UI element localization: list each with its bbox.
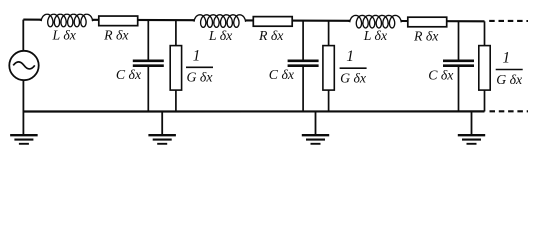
value label G1 = 1/(G deltax) fraction (186, 47, 213, 84)
wire C1 bottom stem (147, 67, 149, 112)
svg-text:1: 1 (346, 48, 354, 65)
ground GND1 bars (10, 135, 38, 144)
svg-text:1: 1 (193, 47, 201, 64)
capacitor C2 bottom plate (288, 64, 319, 67)
svg-text:L δx: L δx (363, 28, 388, 43)
ground GND4 bars (458, 135, 485, 144)
capacitor C2 top plate (288, 59, 319, 62)
inductor L2 (192, 15, 247, 28)
ground GND1 stem (source) (22, 112, 24, 135)
wire conductance G2 top stem (328, 21, 330, 46)
resistor R1 (99, 16, 138, 26)
ground GND4 stem (471, 112, 473, 135)
wire conductance G3 top stem (484, 21, 486, 45)
svg-text:C δx: C δx (428, 68, 454, 83)
wire top segment L1-R1-node B to L2 (92, 19, 195, 21)
wire C3 bottom stem (458, 67, 460, 112)
wire C2 top stem (302, 21, 304, 60)
wire dashed continuation top (line cont.) (489, 20, 528, 22)
capacitor C3 top plate (443, 59, 474, 62)
svg-text:R δx: R δx (258, 28, 284, 43)
wire top segment R2-node C to L3 (246, 19, 351, 21)
svg-text:1: 1 (502, 50, 510, 67)
svg-text:L δx: L δx (51, 27, 76, 42)
conductance element G3 box (479, 46, 490, 91)
wire conductance G1 top stem (175, 20, 177, 46)
wire top segment node A to L1 (23, 19, 42, 21)
inductor L1 (39, 14, 94, 27)
svg-text:C δx: C δx (269, 67, 295, 82)
svg-text:R δx: R δx (413, 28, 439, 43)
wire conductance G2 bottom stem (328, 90, 330, 111)
value label G2 = 1/(G deltax) fraction (340, 48, 367, 85)
ground GND2 bars (148, 135, 176, 144)
wire top segment R3 to node D (401, 20, 485, 22)
ground GND2 stem (161, 112, 163, 135)
ground GND3 bars (302, 135, 329, 144)
svg-text:G δx: G δx (187, 70, 214, 85)
resistor R3 (408, 17, 447, 27)
value label G3 = 1/(G deltax) fraction (496, 50, 523, 87)
wire bottom return (ground bus) (23, 110, 484, 112)
voltage source Vs riser wire (bottom) joining ground bus (22, 80, 24, 111)
conductance element G2 box (323, 46, 334, 91)
svg-text:G δx: G δx (340, 71, 367, 86)
ground GND3 stem (315, 112, 317, 135)
resistor R2 (253, 17, 292, 27)
svg-text:R δx: R δx (103, 28, 129, 43)
inductor L3 (348, 15, 403, 28)
wire C1 top stem (147, 20, 149, 59)
wire C2 bottom stem (302, 67, 304, 112)
capacitor C1 top plate (133, 59, 164, 62)
wire C3 top stem (458, 21, 460, 59)
wire conductance G3 bottom stem (484, 90, 486, 111)
svg-text:C δx: C δx (116, 67, 142, 82)
wire conductance G1 bottom stem (175, 90, 177, 111)
AC voltage source Vs (9, 51, 38, 80)
svg-text:G δx: G δx (496, 72, 523, 87)
svg-text:L δx: L δx (208, 28, 233, 43)
wire dashed continuation bottom (line cont.) (490, 110, 529, 112)
voltage source Vs riser wire (top) (22, 20, 24, 51)
capacitor C3 bottom plate (443, 64, 474, 67)
capacitor C1 bottom plate (133, 64, 164, 67)
conductance element G1 box (170, 46, 181, 91)
